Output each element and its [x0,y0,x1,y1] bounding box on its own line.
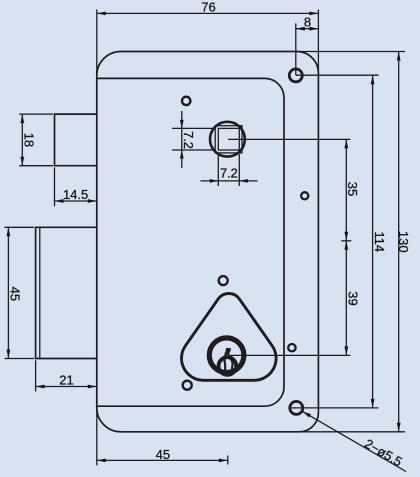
svg-text:7.2: 7.2 [220,165,238,180]
dim 45 bottom [97,459,228,461]
dim 7.2 horizontal extensions [218,154,239,186]
lock outer back plate [97,52,319,432]
dim 8 [296,28,319,30]
svg-text:45: 45 [156,447,170,462]
dim 114 bottom extension [291,407,379,409]
spindle follower circle [210,122,245,157]
dim 8 extension (screw centre) [295,23,297,75]
dim 14.5 extension [54,168,56,207]
small hole NW of follower [182,97,190,105]
dim 130 [398,52,400,432]
dim 45 left extensions [5,227,35,358]
dim 7.2 vertical extensions [172,128,216,150]
small hole right side [301,192,308,199]
dim 7.2 vertical line [181,111,183,168]
cylinder plug [219,357,237,375]
dim 130 top extension [297,51,405,53]
dim 45 bottom tick [227,456,229,465]
svg-text:39: 39 [345,291,360,305]
dim 114 [372,75,374,408]
dim split tick at 35/39 [341,240,351,242]
dim 39 extension (cylinder centre) [231,354,351,356]
dim 39 [345,241,347,356]
svg-text:14.5: 14.5 [63,187,88,202]
deadbolt [36,227,97,358]
svg-text:2−ø5.5: 2−ø5.5 [362,436,405,470]
dim 114 top extension [296,74,379,76]
dim 18 extensions [19,114,53,166]
key profile [225,348,231,355]
deadbolt face line [39,227,41,358]
svg-text:35: 35 [345,182,360,196]
dim 18 [21,114,23,166]
svg-text:8: 8 [304,15,311,30]
latch bolt [55,114,97,166]
svg-text:76: 76 [201,0,215,14]
svg-text:114: 114 [372,231,387,252]
dim 14.5 [55,200,97,202]
small hole right of cylinder [288,344,295,351]
small hole SW of escutcheon [183,381,192,390]
spindle square hole inner [218,128,239,150]
dim 76 [97,12,319,14]
dim 7.2 horizontal line [201,180,258,182]
svg-text:130: 130 [396,231,411,253]
dim 7.2 horizontal outside arrows [210,179,219,183]
dim 7.2 vertical outside arrows [180,120,184,128]
key bit left wall [225,353,226,372]
lock cover plate [97,78,284,406]
svg-text:7.2: 7.2 [181,131,196,149]
bottom screw hole [290,401,303,414]
svg-text:21: 21 [59,372,73,387]
dim 45 left [7,227,9,358]
top screw hole [289,69,302,82]
cylinder escutcheon rounded triangle [182,293,277,380]
dim 21 extension [35,360,37,391]
key bit right wall [229,354,232,372]
svg-text:18: 18 [21,133,36,147]
small hole above escutcheon [219,276,228,285]
leader line 2-dia5.5 [302,411,406,471]
spindle square hole outer [215,126,242,153]
dim 35 [345,139,347,241]
dim 21 [36,386,97,388]
dim 35 extension (follower centre) [228,138,350,140]
right extension line (dim 76) [317,10,319,74]
left extension line (plate left edge, dim 76 / dim 45) [96,10,98,466]
cylinder ring [209,338,244,373]
svg-text:45: 45 [7,287,22,301]
dim 130 bottom extension [300,431,406,433]
